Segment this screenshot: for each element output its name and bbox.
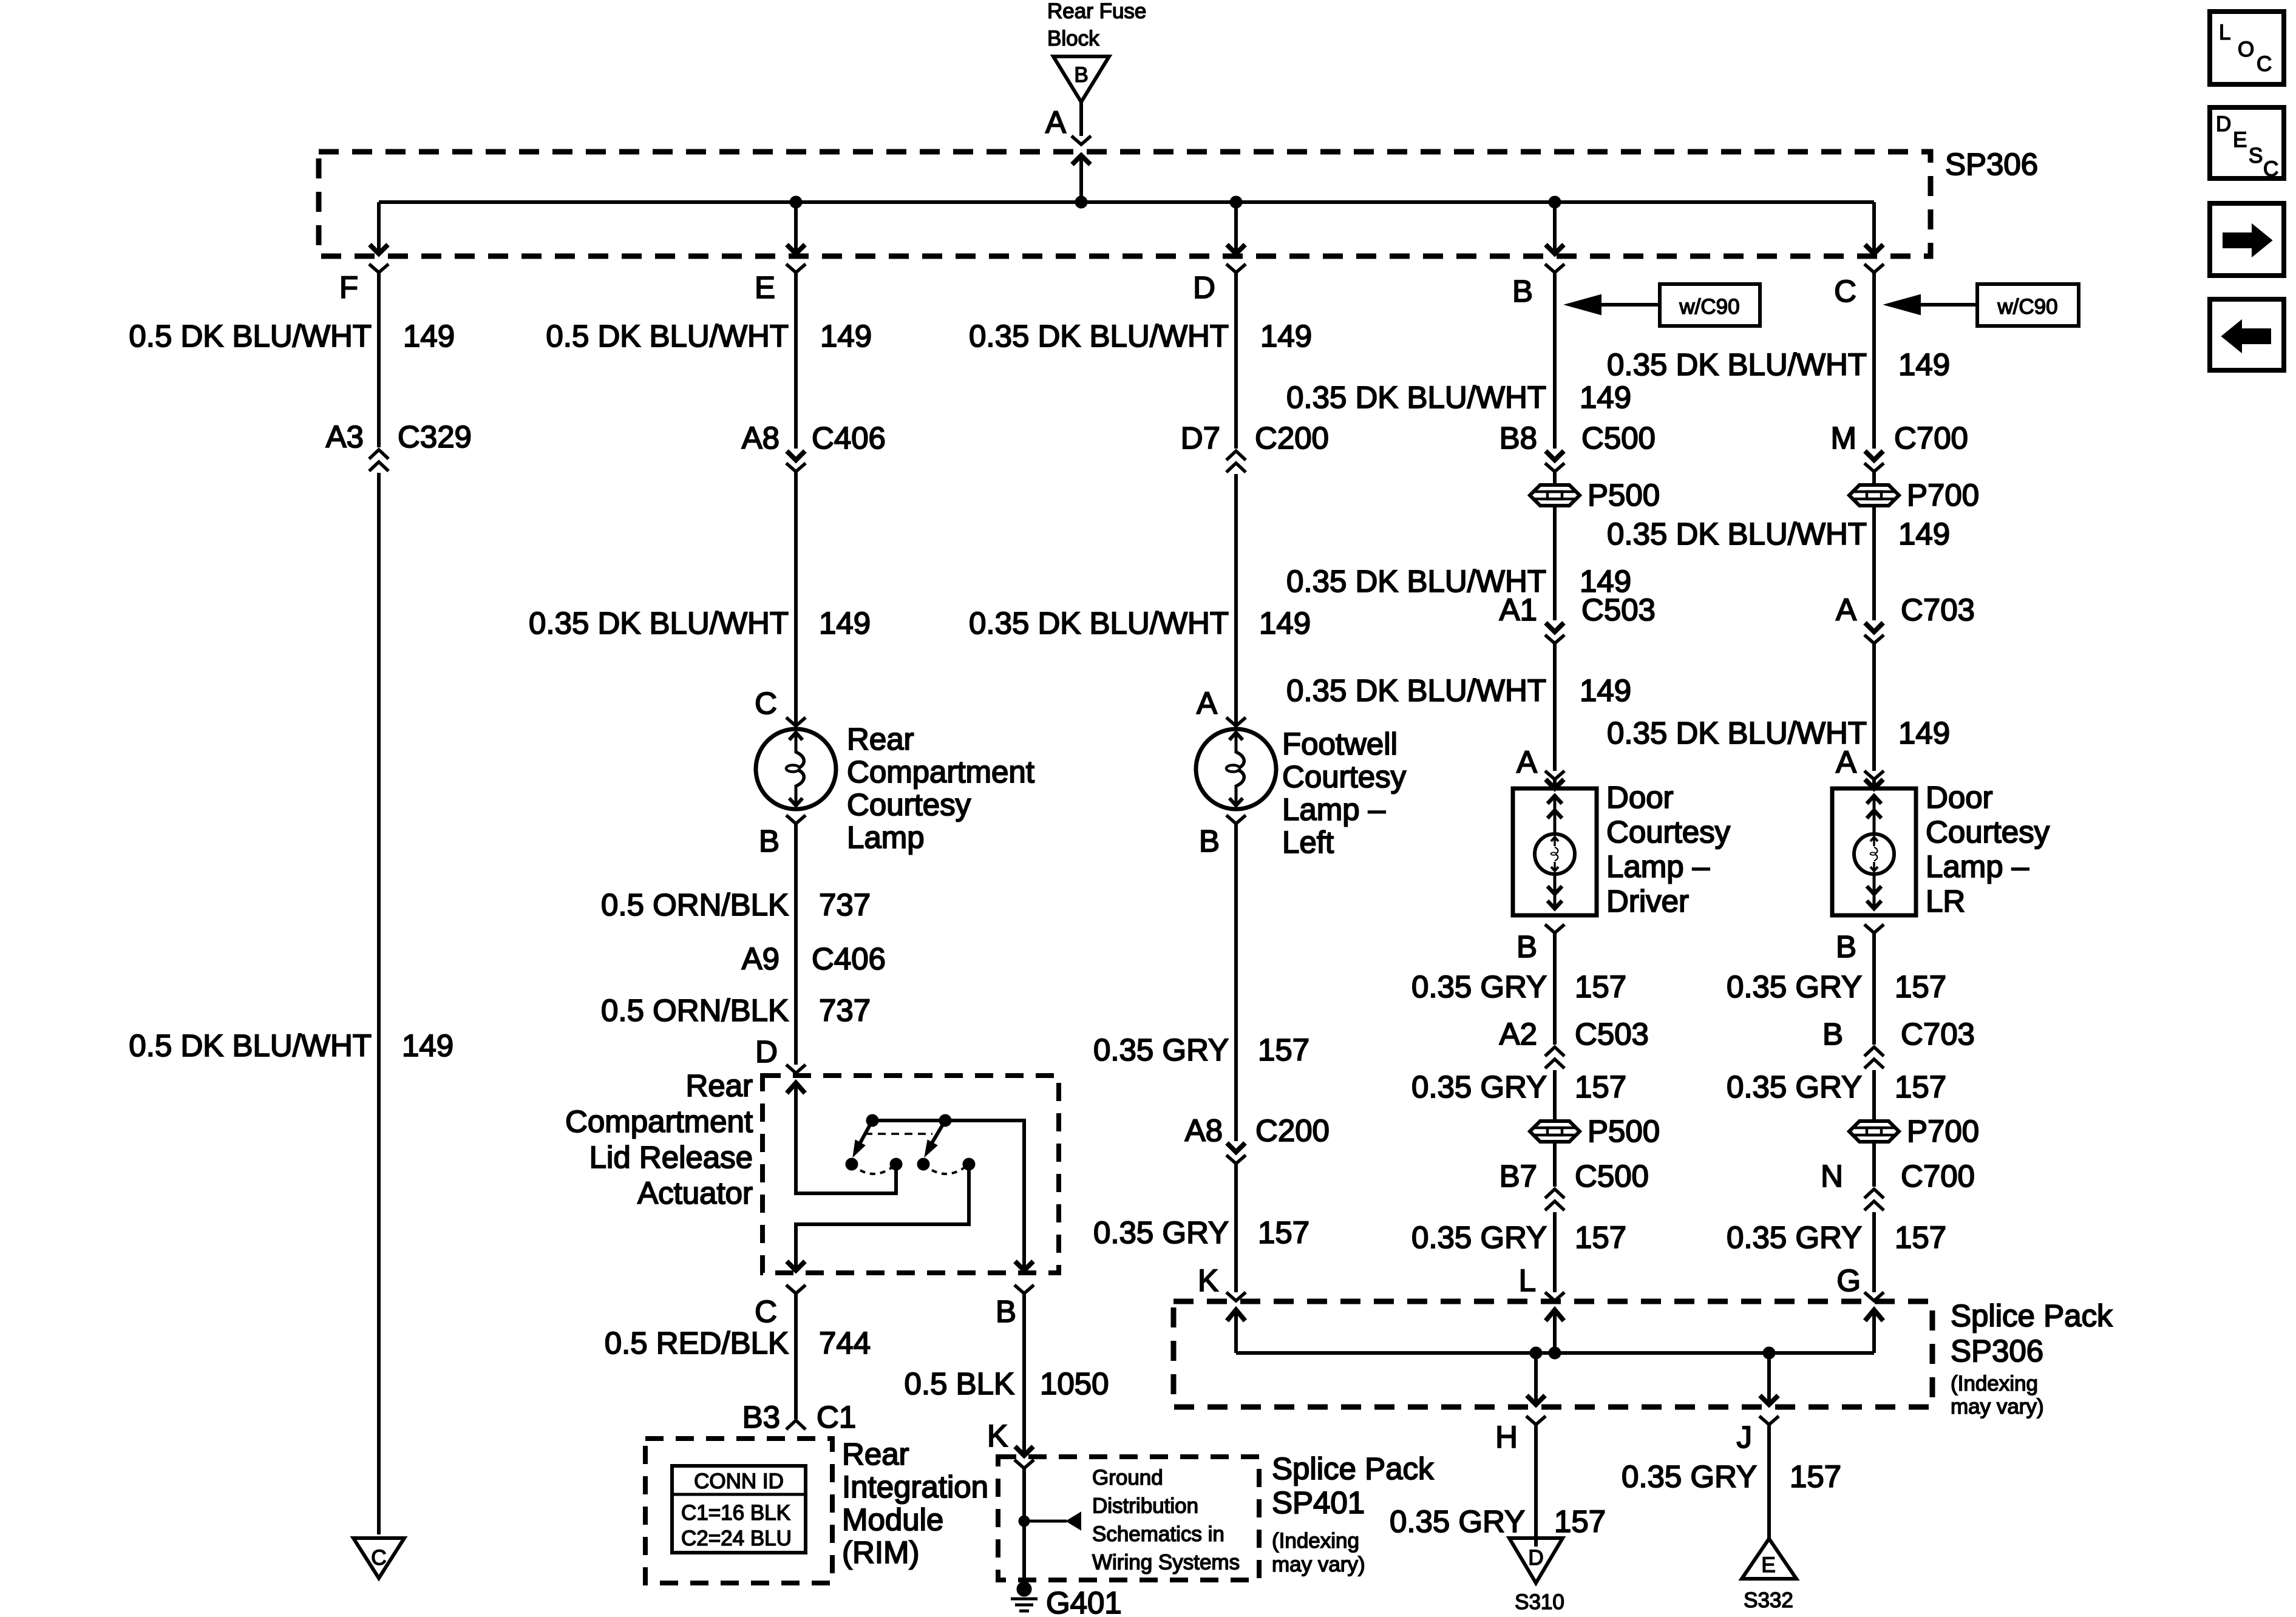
svg-text:0.35 GRY: 0.35 GRY	[1622, 1459, 1757, 1494]
svg-text:may vary): may vary)	[1951, 1395, 2044, 1419]
svg-text:0.35 DK BLU/WHT: 0.35 DK BLU/WHT	[529, 606, 789, 640]
svg-text:0.5 ORN/BLK: 0.5 ORN/BLK	[601, 993, 789, 1028]
svg-text:Rear: Rear	[842, 1437, 909, 1471]
svg-text:157: 157	[1575, 1220, 1626, 1255]
svg-text:K: K	[1198, 1263, 1218, 1298]
svg-text:Courtesy: Courtesy	[847, 787, 971, 822]
svg-text:Courtesy: Courtesy	[1282, 759, 1407, 794]
svg-text:C703: C703	[1901, 592, 1975, 627]
svg-text:0.5 DK BLU/WHT: 0.5 DK BLU/WHT	[546, 319, 789, 353]
svg-text:Actuator: Actuator	[637, 1176, 753, 1210]
svg-text:0.35 DK BLU/WHT: 0.35 DK BLU/WHT	[969, 319, 1229, 353]
svg-text:C2=24 BLU: C2=24 BLU	[681, 1527, 792, 1550]
svg-text:A: A	[1045, 105, 1066, 140]
svg-text:C200: C200	[1255, 421, 1329, 455]
svg-text:L: L	[2219, 21, 2230, 44]
svg-text:C1=16 BLK: C1=16 BLK	[681, 1501, 790, 1525]
svg-text:(RIM): (RIM)	[842, 1535, 919, 1570]
svg-text:S332: S332	[1744, 1588, 1793, 1612]
svg-text:w/C90: w/C90	[1679, 295, 1739, 319]
svg-text:157: 157	[1258, 1032, 1309, 1067]
svg-text:L: L	[1519, 1263, 1536, 1298]
svg-text:Rear: Rear	[685, 1068, 753, 1103]
svg-text:0.35 GRY: 0.35 GRY	[1390, 1504, 1525, 1539]
svg-text:B: B	[1199, 824, 1220, 858]
svg-text:P500: P500	[1588, 1114, 1660, 1148]
svg-text:0.35 DK BLU/WHT: 0.35 DK BLU/WHT	[1607, 517, 1867, 551]
svg-text:Splice Pack: Splice Pack	[1951, 1298, 2113, 1333]
svg-text:A: A	[1517, 745, 1537, 779]
svg-text:Ground: Ground	[1092, 1466, 1163, 1490]
svg-text:F: F	[339, 270, 358, 305]
svg-text:E: E	[1761, 1553, 1775, 1577]
svg-text:S: S	[2249, 144, 2263, 168]
svg-text:D: D	[1193, 270, 1215, 305]
svg-text:C703: C703	[1901, 1017, 1975, 1051]
svg-text:149: 149	[402, 1028, 453, 1063]
svg-text:C406: C406	[812, 941, 886, 976]
svg-text:C329: C329	[398, 419, 472, 454]
svg-text:0.35 GRY: 0.35 GRY	[1727, 1070, 1862, 1104]
svg-text:Door: Door	[1926, 780, 1993, 815]
svg-text:157: 157	[1790, 1459, 1841, 1494]
svg-text:Lamp: Lamp	[847, 820, 925, 855]
svg-text:Splice Pack: Splice Pack	[1272, 1451, 1434, 1486]
svg-text:may vary): may vary)	[1272, 1553, 1365, 1576]
svg-text:149: 149	[1580, 673, 1631, 708]
svg-text:E: E	[755, 270, 775, 305]
svg-text:157: 157	[1554, 1504, 1606, 1539]
svg-text:G401: G401	[1046, 1585, 1122, 1617]
svg-text:D: D	[755, 1034, 778, 1069]
svg-text:Door: Door	[1606, 780, 1674, 815]
svg-text:C: C	[2263, 157, 2278, 181]
svg-text:C503: C503	[1575, 1017, 1649, 1051]
svg-text:A: A	[1197, 686, 1217, 720]
svg-text:Lamp –: Lamp –	[1606, 849, 1710, 884]
svg-text:149: 149	[1898, 716, 1950, 750]
svg-text:737: 737	[819, 993, 871, 1028]
svg-text:B: B	[1074, 63, 1088, 87]
svg-text:157: 157	[1895, 1070, 1946, 1104]
svg-text:A3: A3	[326, 419, 364, 454]
svg-text:0.5 DK BLU/WHT: 0.5 DK BLU/WHT	[129, 319, 372, 353]
svg-text:157: 157	[1258, 1215, 1309, 1250]
svg-text:Block: Block	[1047, 27, 1099, 50]
svg-text:0.35 DK BLU/WHT: 0.35 DK BLU/WHT	[1286, 380, 1546, 415]
svg-text:B: B	[1517, 929, 1537, 964]
svg-text:Courtesy: Courtesy	[1926, 815, 2050, 849]
svg-text:B: B	[996, 1294, 1016, 1329]
svg-text:Courtesy: Courtesy	[1606, 815, 1731, 849]
svg-text:149: 149	[1259, 606, 1311, 640]
svg-text:149: 149	[1898, 347, 1950, 382]
svg-text:Left: Left	[1282, 825, 1334, 859]
svg-text:A1: A1	[1500, 592, 1537, 627]
svg-text:SP306: SP306	[1945, 147, 2038, 181]
svg-text:0.35 GRY: 0.35 GRY	[1411, 1070, 1547, 1104]
svg-text:157: 157	[1895, 1220, 1946, 1255]
svg-text:C406: C406	[812, 421, 886, 455]
svg-text:(Indexing: (Indexing	[1272, 1529, 1359, 1553]
svg-text:SP401: SP401	[1272, 1485, 1365, 1520]
svg-text:149: 149	[820, 319, 872, 353]
svg-text:D7: D7	[1181, 421, 1220, 455]
svg-text:Rear Fuse: Rear Fuse	[1047, 0, 1146, 23]
svg-text:C700: C700	[1894, 421, 1968, 455]
svg-text:C200: C200	[1255, 1113, 1330, 1148]
svg-text:0.5 RED/BLK: 0.5 RED/BLK	[605, 1326, 789, 1360]
svg-text:149: 149	[403, 319, 455, 353]
svg-text:CONN ID: CONN ID	[694, 1470, 784, 1493]
svg-text:0.35 DK BLU/WHT: 0.35 DK BLU/WHT	[969, 606, 1229, 640]
svg-text:A2: A2	[1500, 1017, 1537, 1051]
svg-text:G: G	[1836, 1263, 1861, 1298]
svg-text:149: 149	[1580, 380, 1631, 415]
svg-text:Driver: Driver	[1606, 884, 1689, 918]
svg-text:Compartment: Compartment	[847, 754, 1034, 789]
svg-text:0.35 GRY: 0.35 GRY	[1411, 969, 1547, 1004]
svg-text:M: M	[1831, 421, 1856, 455]
svg-text:B: B	[1836, 929, 1856, 964]
svg-text:SP306: SP306	[1951, 1334, 2043, 1368]
svg-text:Lamp –: Lamp –	[1926, 849, 2029, 884]
svg-text:Lamp –: Lamp –	[1282, 792, 1386, 827]
svg-text:737: 737	[819, 887, 871, 922]
svg-text:0.35 GRY: 0.35 GRY	[1093, 1215, 1229, 1250]
svg-text:C500: C500	[1575, 1159, 1649, 1193]
svg-text:Lid Release: Lid Release	[589, 1140, 753, 1175]
svg-text:P700: P700	[1907, 1114, 1979, 1148]
svg-text:149: 149	[1260, 319, 1312, 353]
svg-text:0.35 GRY: 0.35 GRY	[1727, 969, 1862, 1004]
svg-text:A: A	[1836, 592, 1856, 627]
svg-text:H: H	[1495, 1420, 1518, 1454]
svg-text:C500: C500	[1581, 421, 1656, 455]
svg-text:(Indexing: (Indexing	[1951, 1372, 2038, 1395]
svg-text:157: 157	[1575, 1070, 1626, 1104]
svg-text:C1: C1	[817, 1400, 856, 1434]
svg-text:1050: 1050	[1040, 1366, 1109, 1401]
svg-text:149: 149	[819, 606, 871, 640]
svg-text:w/C90: w/C90	[1997, 295, 2057, 319]
svg-text:0.35 DK BLU/WHT: 0.35 DK BLU/WHT	[1607, 347, 1867, 382]
svg-text:Footwell: Footwell	[1282, 727, 1398, 761]
svg-text:A8: A8	[742, 421, 779, 455]
svg-text:149: 149	[1898, 517, 1950, 551]
svg-text:S310: S310	[1515, 1590, 1564, 1614]
svg-text:K: K	[987, 1419, 1008, 1453]
svg-text:157: 157	[1895, 969, 1946, 1004]
svg-text:B8: B8	[1500, 421, 1537, 455]
svg-text:C: C	[1834, 274, 1856, 308]
svg-text:D: D	[1528, 1546, 1543, 1570]
svg-text:C: C	[371, 1546, 386, 1570]
svg-text:C: C	[755, 686, 777, 720]
svg-text:Schematics in: Schematics in	[1092, 1522, 1224, 1546]
svg-text:0.35 GRY: 0.35 GRY	[1727, 1220, 1862, 1255]
svg-text:0.35 DK BLU/WHT: 0.35 DK BLU/WHT	[1286, 673, 1546, 708]
svg-text:P700: P700	[1907, 478, 1979, 512]
svg-text:C: C	[2257, 52, 2272, 76]
svg-text:Wiring Systems: Wiring Systems	[1092, 1551, 1240, 1575]
svg-text:A9: A9	[742, 941, 779, 976]
svg-text:B: B	[759, 824, 779, 858]
svg-text:157: 157	[1575, 969, 1626, 1004]
svg-text:Compartment: Compartment	[565, 1104, 753, 1139]
svg-text:B3: B3	[742, 1400, 780, 1434]
svg-text:Rear: Rear	[847, 722, 914, 756]
svg-text:O: O	[2238, 38, 2254, 61]
svg-text:D: D	[2216, 112, 2231, 136]
svg-text:744: 744	[819, 1326, 871, 1360]
svg-text:J: J	[1737, 1420, 1753, 1454]
svg-text:0.5 DK BLU/WHT: 0.5 DK BLU/WHT	[129, 1028, 372, 1063]
svg-text:0.35 GRY: 0.35 GRY	[1093, 1032, 1229, 1067]
svg-text:C: C	[755, 1294, 777, 1329]
svg-text:A8: A8	[1185, 1113, 1223, 1148]
svg-text:0.5 ORN/BLK: 0.5 ORN/BLK	[601, 887, 789, 922]
svg-text:B: B	[1512, 274, 1533, 308]
svg-text:B: B	[1822, 1017, 1843, 1051]
svg-text:Distribution: Distribution	[1092, 1494, 1198, 1518]
svg-text:B7: B7	[1500, 1159, 1537, 1193]
svg-text:Integration: Integration	[842, 1470, 988, 1504]
svg-text:E: E	[2233, 128, 2247, 152]
svg-text:P500: P500	[1588, 478, 1660, 512]
svg-text:0.35 DK BLU/WHT: 0.35 DK BLU/WHT	[1607, 716, 1867, 750]
svg-text:0.5 BLK: 0.5 BLK	[905, 1366, 1014, 1401]
svg-text:Module: Module	[842, 1502, 943, 1537]
svg-text:A: A	[1836, 745, 1856, 779]
svg-text:C503: C503	[1581, 592, 1656, 627]
svg-text:C700: C700	[1901, 1159, 1975, 1193]
svg-text:LR: LR	[1926, 884, 1965, 918]
svg-text:N: N	[1821, 1159, 1843, 1193]
svg-text:0.35 GRY: 0.35 GRY	[1411, 1220, 1547, 1255]
